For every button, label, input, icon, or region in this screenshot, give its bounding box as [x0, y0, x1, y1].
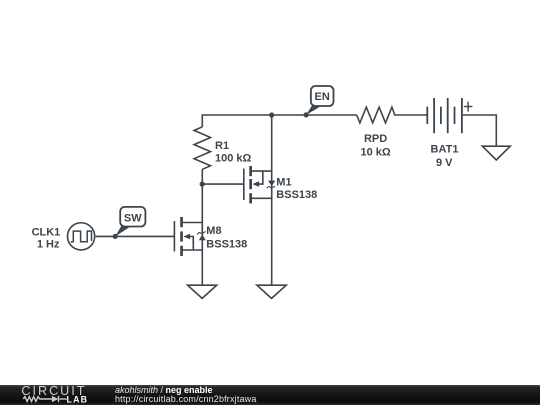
svg-text:M8: M8 [206, 225, 221, 237]
svg-text:BAT1: BAT1 [431, 144, 459, 156]
svg-text:EN: EN [315, 91, 330, 103]
svg-text:SW: SW [124, 212, 142, 224]
svg-text:100 kΩ: 100 kΩ [215, 153, 252, 165]
svg-text:1 Hz: 1 Hz [37, 239, 60, 251]
svg-text:10 kΩ: 10 kΩ [360, 146, 390, 158]
svg-text:CLK1: CLK1 [32, 226, 61, 238]
svg-text:R1: R1 [215, 140, 229, 152]
svg-text:RPD: RPD [364, 133, 387, 145]
svg-text:BSS138: BSS138 [276, 189, 317, 201]
svg-text:BSS138: BSS138 [206, 239, 247, 251]
svg-text:M1: M1 [276, 177, 291, 189]
svg-text:LAB: LAB [67, 395, 89, 405]
svg-text:9 V: 9 V [436, 157, 453, 169]
